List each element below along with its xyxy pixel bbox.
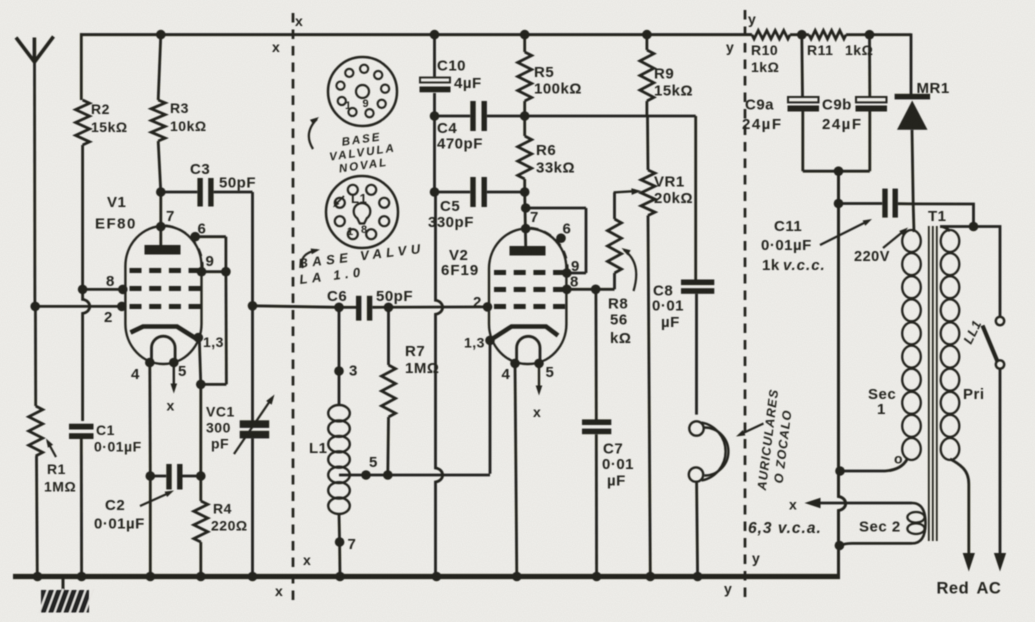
wire R6 top <box>523 116 526 136</box>
wire VC1 line <box>251 306 254 421</box>
capacitor C4 <box>470 101 475 131</box>
heater V1 <box>152 336 176 363</box>
arrow VR1 wiper <box>614 191 634 192</box>
wire C6 to V2 pin2 <box>372 305 487 308</box>
node V2 pin6 <box>556 233 566 243</box>
node V2 box junction <box>521 203 531 213</box>
wire screen bus <box>525 115 696 118</box>
node C3 line to C6 branch <box>248 301 258 311</box>
node L1 rail <box>335 572 345 582</box>
resistor R9 <box>640 50 654 101</box>
node C6 right R7 top <box>384 303 394 313</box>
wire C9b to bottom junction <box>868 112 871 172</box>
node Pri top <box>969 222 979 232</box>
wire V1 pin8 <box>83 288 123 291</box>
dashed arc V2 pins 7-9 <box>531 228 568 270</box>
wire top-left corner to R2 <box>80 33 83 100</box>
wire top to R3 <box>158 35 161 100</box>
wire VC1 to rail <box>251 438 254 576</box>
wire headphones to rail <box>697 482 698 577</box>
resistor R10 <box>752 31 790 39</box>
capacitor C6 <box>356 296 361 321</box>
cathode V2 <box>492 327 558 340</box>
wire R7 to tap <box>386 417 390 475</box>
ground symbol stub <box>62 579 65 591</box>
wire C2 left <box>150 475 166 478</box>
resistor R7 <box>382 365 396 417</box>
headphones symbol <box>689 421 703 435</box>
wire R8 bottom <box>613 273 616 289</box>
wire top to R5 <box>523 35 526 52</box>
arrow curved to R8 <box>624 250 636 291</box>
resistor R11 <box>809 31 846 39</box>
arrow V1 heater x <box>173 365 175 387</box>
wire Pri top lead <box>913 204 1000 317</box>
wire MR1 to 220v node <box>912 130 913 204</box>
wire R11 node to C9b <box>868 35 871 97</box>
capacitor C1 <box>69 424 94 430</box>
node R5 R6 junction <box>520 111 530 121</box>
resistor R6 <box>518 136 532 179</box>
node R1 rail <box>33 572 43 582</box>
tube base octal L1 diagram <box>326 176 398 248</box>
capacitor C9b <box>856 97 887 102</box>
arrow to R1 <box>48 442 57 458</box>
arrow to C11 <box>820 221 868 245</box>
wire bus to VR1 <box>646 116 649 170</box>
tube V1 envelope <box>125 226 201 364</box>
node VR1 rail <box>646 572 656 582</box>
arrow inside octal base <box>335 196 344 205</box>
dashed divider line y <box>744 10 747 600</box>
switch LL1 lever <box>983 326 998 362</box>
resistor R5 <box>518 52 532 101</box>
node R4 rail <box>196 572 206 582</box>
wire VR1 to rail <box>648 216 650 577</box>
potentiometer VR1 <box>641 170 655 216</box>
capacitor C7 <box>582 419 611 425</box>
node C9 ground junction <box>834 166 844 176</box>
transformer T1 Sec1 winding <box>902 230 921 252</box>
resistor R2 <box>76 100 90 145</box>
node V2 pin9 <box>562 268 572 278</box>
transformer T1 Pri winding <box>941 230 960 252</box>
wire switch to mains <box>999 369 1002 554</box>
capacitor C5 <box>470 177 475 207</box>
wire R2 line hop over grid wire <box>83 289 90 421</box>
wire C2 node to rail <box>149 476 152 577</box>
node V1 pin2 <box>117 302 127 312</box>
node L1 tap <box>361 470 371 480</box>
wire Sec2 top lead x <box>810 502 912 505</box>
wire Sec1 bottom lead <box>840 460 907 472</box>
node V2 pin13 <box>485 336 495 346</box>
wire C6 right to R7 <box>387 307 390 365</box>
node C7 rail <box>592 572 602 582</box>
arrow to octal base <box>302 250 317 268</box>
node V1 cathode junction <box>196 380 206 390</box>
node headphones rail <box>693 572 703 582</box>
wire R6 to anode node <box>523 179 526 192</box>
node C1 rail <box>77 572 87 582</box>
wire R5 to node <box>523 101 526 116</box>
node V2 pin4 <box>510 359 520 369</box>
wire C8 to headphones <box>695 294 698 415</box>
arrow V2 heater x <box>538 366 540 389</box>
capacitor C10 <box>420 78 450 83</box>
node V2 pin8 junction <box>591 285 601 295</box>
node R7 bottom <box>383 470 393 480</box>
node V2 pin7 <box>521 224 531 234</box>
wire to C4 <box>435 115 471 118</box>
arrow to C2 <box>140 493 170 507</box>
heater V2 <box>517 336 540 363</box>
wire C10 to C4 node <box>433 93 436 116</box>
tube base noval diagram <box>328 57 397 126</box>
resistor R8 <box>608 219 622 273</box>
wire pin8 junction to V2 <box>567 288 596 291</box>
node center line rail <box>432 572 442 582</box>
dashed arc V1 pins 7-9 <box>166 226 203 268</box>
node C11 ground junction <box>834 199 844 209</box>
node V1 pin8 <box>118 285 128 295</box>
arrow VC1 variable <box>234 398 272 454</box>
wire C1 to rail <box>80 439 83 577</box>
antenna <box>16 37 54 63</box>
node V2 pin8 <box>562 285 572 295</box>
wire L1 pin7 to rail <box>338 542 341 577</box>
capacitor C11 <box>882 189 887 218</box>
arrow mains AC <box>994 553 1006 572</box>
paper noise overlay <box>0 0 1 1</box>
wire C3-line to C6 <box>253 306 340 308</box>
node C2 left <box>146 471 156 481</box>
wire V1 pin13 down <box>199 338 201 384</box>
wire to C6 <box>339 306 356 309</box>
node V1 pin7 <box>156 222 166 232</box>
wire R10 to R11 <box>790 33 809 36</box>
node L1 pin3 <box>334 366 344 376</box>
resistor R4 <box>194 501 208 542</box>
wire C4 to R5 node <box>487 115 525 118</box>
tube V2 envelope <box>489 229 566 364</box>
node V2 pin2 <box>483 302 493 312</box>
wire wiper to R8 <box>613 192 616 219</box>
diode MR1 <box>895 94 931 100</box>
arrow mains Red <box>963 553 975 572</box>
wire C2 right <box>183 475 201 478</box>
cathode V1 <box>131 327 197 339</box>
node top R9 junction <box>642 30 652 40</box>
capacitor C8 <box>681 280 714 286</box>
wire V2 box <box>526 207 586 210</box>
wire bus corner down to C8 <box>694 116 697 280</box>
node C4 branch <box>430 111 440 121</box>
resistor R1 <box>29 406 43 456</box>
switch LL1 contacts <box>996 317 1004 325</box>
wire top to R9 <box>646 35 649 50</box>
wire V2 pin7 lead <box>525 192 526 246</box>
wire L1 tap <box>339 474 490 477</box>
wire ground line right <box>839 171 846 576</box>
transformer T1 Sec2 winding <box>912 503 926 543</box>
wire 220v node to Sec1 top <box>912 204 916 232</box>
wire anode node to C3 <box>161 191 198 194</box>
node V1 pin5 <box>169 358 179 368</box>
node Sec1 lead ground line <box>835 466 845 476</box>
node V2 pin4 rail <box>512 572 522 582</box>
wire Sec2 bottom lead <box>842 543 913 545</box>
wire to C5 <box>435 191 471 194</box>
wire R10 node to C9a <box>800 35 804 97</box>
wire C5 node down with hops <box>436 192 443 577</box>
ground symbol hatched block <box>41 590 89 613</box>
wire R4 to rail <box>199 542 202 577</box>
wire ground rail <box>13 574 840 579</box>
node V1 pin4 <box>145 358 155 368</box>
capacitor C3 <box>197 178 202 207</box>
wire grid V1 <box>35 305 122 308</box>
arrow to headphones <box>740 424 764 435</box>
node V1 pin9 <box>197 267 207 277</box>
node R10 R11 junction <box>797 30 807 40</box>
node top R5 junction <box>520 30 530 40</box>
dashed divider line x <box>292 13 295 600</box>
wire C4 node to C5 node <box>433 116 436 192</box>
node pin4 rail <box>146 572 156 582</box>
resistor R3 <box>151 100 165 141</box>
wire top to C10 <box>433 35 436 77</box>
grid V2 dashes <box>494 270 506 275</box>
inductor L1 <box>328 405 350 421</box>
wire top supply bus <box>80 33 752 36</box>
node top C10 junction <box>430 30 440 40</box>
node V2 pin5 <box>534 359 544 369</box>
node Sec2 ground line <box>835 541 845 551</box>
node R11 MR1 junction <box>865 30 875 40</box>
grid V1 dashes <box>130 268 142 273</box>
transformer core <box>928 226 930 541</box>
wire C6 to L1 pin3 <box>338 307 341 405</box>
node antenna to grid wire <box>30 302 40 312</box>
capacitor C9a <box>788 97 819 102</box>
wire cathode node to R4 <box>199 384 202 501</box>
node C2 right <box>196 471 206 481</box>
wire C9a to bottom junction <box>801 112 804 172</box>
capacitor C2 <box>166 464 171 490</box>
wire junction to C7 <box>595 289 598 419</box>
node V1 box corner <box>221 267 231 277</box>
wire R2 to pin8 node <box>81 145 84 289</box>
arrow Sec2 x <box>805 498 821 509</box>
capacitor VC1 <box>240 420 270 428</box>
wire C7 to rail <box>595 434 598 576</box>
wire V1 pin7 lead <box>159 192 162 245</box>
wire R9 to bus <box>646 101 649 116</box>
node top R3 junction <box>156 30 166 40</box>
wire R11 to MR1 corner <box>846 33 911 36</box>
wire V2 pin13 down-left <box>489 340 492 473</box>
wire Pri bottom lead <box>950 459 969 554</box>
wire R3 to anode node <box>158 141 161 192</box>
wire V1 pin9 stub <box>202 270 226 273</box>
wire C5 to V2 anode node <box>487 191 525 194</box>
wire V1 pin4 down <box>148 363 151 477</box>
node VC1 rail <box>248 572 258 582</box>
node V1 pin13 <box>194 333 204 343</box>
node R2 pin8 junction <box>78 285 88 295</box>
wire to C11 <box>839 202 883 205</box>
wire R1 to ground rail <box>35 456 39 577</box>
wire L1 bottom <box>338 514 341 542</box>
wire C11 right <box>898 202 913 205</box>
node V2 anode junction <box>520 187 530 197</box>
wire antenna line to R1 <box>34 306 37 406</box>
wire V2 pin4 to rail <box>515 363 517 576</box>
node L1 pin7 <box>335 537 345 547</box>
anode plate V2 <box>510 246 546 256</box>
arrow to noval base <box>309 119 317 149</box>
node C6 left <box>334 303 344 313</box>
arrow to 220v lead <box>883 230 905 248</box>
node V1 pin6 <box>190 232 200 242</box>
wire V1 pin6 to box <box>195 235 226 238</box>
node V1 anode C3 junction <box>156 187 166 197</box>
anode plate V1 <box>145 245 181 255</box>
wire V1 box down <box>224 272 227 385</box>
wire C3 to VC1 line <box>214 191 253 194</box>
node C5 branch <box>430 187 440 197</box>
